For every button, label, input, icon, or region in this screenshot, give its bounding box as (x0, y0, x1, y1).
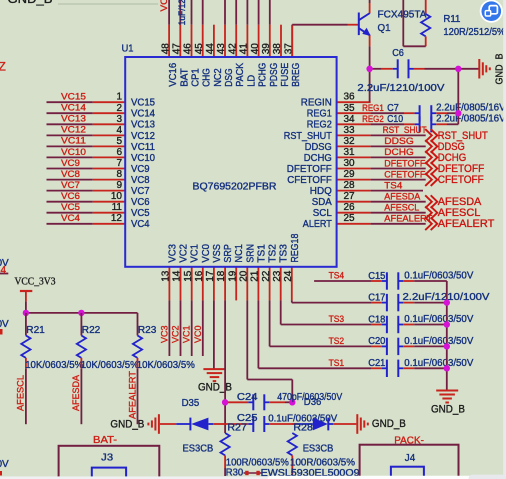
svg-text:VC3: VC3 (167, 244, 178, 263)
svg-text:VC3: VC3 (159, 326, 169, 344)
svg-text:DCHG: DCHG (304, 153, 332, 164)
svg-text:SRP: SRP (223, 244, 234, 263)
svg-text:VC12: VC12 (61, 125, 86, 135)
svg-text:VC4: VC4 (131, 219, 150, 230)
svg-text:22: 22 (261, 270, 272, 282)
svg-text:VCC_3V3: VCC_3V3 (15, 276, 56, 288)
svg-text:PCHG: PCHG (258, 63, 269, 87)
svg-text:26: 26 (344, 202, 356, 213)
svg-text:J3: J3 (101, 452, 113, 463)
svg-text:5: 5 (116, 136, 122, 147)
svg-text:VC9: VC9 (61, 158, 80, 168)
svg-text:VC2: VC2 (179, 244, 190, 263)
svg-text:100R/0603/5%: 100R/0603/5% (290, 457, 355, 468)
svg-text:VC16: VC16 (159, 0, 169, 12)
svg-text:47: 47 (172, 43, 183, 55)
svg-text:VC11: VC11 (61, 136, 86, 146)
svg-text:BQ7695202PFBR: BQ7695202PFBR (193, 182, 277, 193)
svg-text:VC5: VC5 (61, 202, 80, 212)
svg-text:SRN: SRN (245, 244, 256, 263)
svg-text:ALERT: ALERT (303, 219, 332, 230)
svg-text:VC7: VC7 (131, 186, 150, 197)
svg-text:6: 6 (116, 147, 122, 158)
svg-text:PACK-: PACK- (394, 435, 424, 446)
svg-text:C20: C20 (368, 336, 386, 347)
svg-text:7: 7 (116, 158, 122, 169)
svg-text:BAT-: BAT- (93, 435, 117, 446)
svg-text:35: 35 (344, 103, 356, 114)
svg-text:C10: C10 (387, 114, 403, 125)
svg-text:LD: LD (246, 75, 257, 87)
svg-text:AFEALERT: AFEALERT (127, 371, 137, 419)
svg-text:R11: R11 (443, 14, 460, 25)
svg-text:0V: 0V (0, 319, 9, 330)
svg-text:4: 4 (1, 265, 7, 276)
svg-text:VC13: VC13 (61, 114, 86, 124)
svg-text:21: 21 (250, 270, 261, 282)
svg-text:AFEALERT: AFEALERT (438, 218, 495, 230)
svg-text:VC8: VC8 (61, 169, 80, 179)
svg-text:C7: C7 (387, 103, 399, 114)
svg-text:BAT: BAT (179, 68, 190, 87)
svg-text:DDSG: DDSG (384, 136, 414, 146)
svg-text:VC6: VC6 (131, 197, 150, 208)
svg-text:R23: R23 (138, 325, 157, 336)
svg-text:SDA: SDA (312, 197, 332, 208)
svg-text:R27: R27 (227, 423, 247, 434)
svg-text:46: 46 (183, 43, 194, 55)
svg-text:NC2: NC2 (213, 68, 224, 87)
svg-text:REGIN: REGIN (301, 98, 332, 109)
svg-text:34: 34 (344, 114, 356, 125)
svg-text:VC6: VC6 (61, 191, 80, 201)
svg-text:3: 3 (116, 114, 122, 125)
svg-text:Z: Z (0, 60, 6, 74)
svg-text:GND_B: GND_B (8, 0, 53, 6)
svg-text:12: 12 (111, 213, 123, 224)
svg-text:VC12: VC12 (131, 131, 155, 142)
svg-text:36: 36 (344, 92, 356, 103)
svg-text:0.1uF/0603/50V: 0.1uF/0603/50V (404, 358, 473, 369)
svg-text:CP1: CP1 (191, 68, 202, 87)
svg-text:REG2: REG2 (307, 120, 332, 131)
svg-text:HDQ: HDQ (310, 186, 332, 197)
svg-text:43: 43 (216, 43, 227, 55)
svg-text:VC5: VC5 (131, 208, 150, 219)
svg-text:TS3: TS3 (329, 314, 345, 324)
svg-text:GND_B: GND_B (372, 418, 406, 430)
svg-text:10K/0603/5%: 10K/0603/5% (81, 360, 139, 371)
svg-text:28: 28 (344, 180, 356, 191)
svg-text:CFETOFF: CFETOFF (384, 169, 425, 179)
svg-text:GND_B: GND_B (198, 381, 232, 393)
svg-text:2: 2 (116, 103, 122, 114)
svg-text:BREG: BREG (291, 63, 302, 87)
svg-text:39: 39 (261, 43, 272, 55)
svg-text:TS2: TS2 (268, 244, 279, 263)
svg-text:ES3CB: ES3CB (303, 443, 334, 454)
svg-text:48: 48 (160, 43, 171, 55)
svg-text:C17: C17 (368, 292, 386, 303)
svg-text:Q1: Q1 (378, 23, 391, 34)
svg-text:11: 11 (112, 202, 123, 213)
svg-text:FUSE: FUSE (280, 63, 291, 87)
svg-text:R21: R21 (26, 325, 45, 336)
svg-text:SCL: SCL (313, 208, 332, 219)
svg-text:NC1: NC1 (234, 244, 245, 263)
svg-text:D35: D35 (182, 398, 200, 409)
svg-text:44: 44 (205, 43, 216, 55)
svg-text:AFESDA: AFESDA (71, 374, 81, 411)
svg-text:2.2uF/1210/100V: 2.2uF/1210/100V (357, 83, 444, 94)
svg-text:DFETOFF: DFETOFF (384, 158, 425, 168)
svg-text:23: 23 (272, 270, 283, 282)
svg-text:41: 41 (239, 43, 250, 55)
svg-text:C15: C15 (368, 271, 386, 282)
svg-text:16: 16 (194, 270, 205, 282)
svg-text:REG18: REG18 (290, 233, 301, 262)
svg-text:VC10: VC10 (131, 153, 155, 164)
svg-text:9: 9 (116, 180, 122, 191)
svg-text:VC7: VC7 (61, 180, 80, 190)
svg-text:REG2: REG2 (362, 114, 384, 124)
svg-text:15: 15 (183, 270, 194, 282)
svg-text:RST_SHUT: RST_SHUT (284, 131, 332, 142)
svg-text:TS4: TS4 (329, 271, 345, 281)
svg-text:D36: D36 (304, 397, 322, 408)
svg-text:13: 13 (161, 270, 172, 282)
svg-text:31: 31 (344, 147, 356, 158)
svg-text:C21: C21 (368, 358, 386, 369)
svg-text:VC11: VC11 (131, 142, 155, 153)
svg-text:38: 38 (272, 43, 283, 55)
svg-text:C6: C6 (392, 48, 404, 59)
svg-text:1uF/1210/100V: 1uF/1210/100V (177, 0, 188, 25)
svg-text:27: 27 (344, 191, 356, 202)
svg-text:C18: C18 (368, 314, 386, 325)
svg-text:2.2uF/0805/16V: 2.2uF/0805/16V (436, 114, 506, 125)
svg-text:U1: U1 (122, 44, 134, 55)
svg-text:REG1: REG1 (362, 103, 384, 113)
svg-text:PDSG: PDSG (269, 63, 280, 87)
svg-text:TS2: TS2 (329, 336, 345, 346)
svg-text:R22: R22 (82, 325, 101, 336)
svg-text:VC8: VC8 (131, 175, 150, 186)
svg-text:VC10: VC10 (61, 147, 86, 157)
svg-text:29: 29 (344, 169, 356, 180)
svg-text:10K/0603/5%: 10K/0603/5% (25, 360, 83, 371)
svg-text:VC0: VC0 (201, 244, 212, 263)
svg-text:FCX495TA: FCX495TA (378, 9, 427, 20)
svg-text:AFESCL: AFESCL (384, 203, 419, 213)
svg-text:VC4: VC4 (61, 213, 80, 223)
svg-text:TS1: TS1 (329, 358, 345, 368)
svg-text:0V: 0V (0, 459, 9, 470)
svg-text:ES3CB: ES3CB (183, 443, 214, 454)
svg-text:TS3: TS3 (279, 244, 290, 263)
svg-text:TS1: TS1 (256, 244, 267, 263)
svg-text:40: 40 (250, 43, 261, 55)
svg-text:20: 20 (239, 270, 250, 282)
svg-text:VC13: VC13 (131, 120, 155, 131)
svg-text:25: 25 (344, 213, 356, 224)
svg-text:24: 24 (283, 270, 294, 282)
svg-text:DCHG: DCHG (384, 147, 414, 157)
svg-text:VC15: VC15 (131, 98, 155, 109)
svg-text:CFETOFF: CFETOFF (287, 175, 332, 186)
svg-text:J4: J4 (405, 453, 416, 464)
svg-text:AFESCL: AFESCL (16, 375, 26, 411)
svg-text:CHG: CHG (202, 68, 213, 87)
svg-text:GND_B: GND_B (431, 404, 465, 416)
svg-text:33: 33 (344, 125, 356, 136)
svg-text:45: 45 (194, 43, 205, 55)
svg-text:CFETOFF: CFETOFF (438, 174, 484, 186)
svg-text:2.2uF/0805/16V: 2.2uF/0805/16V (436, 103, 506, 114)
svg-text:VC14: VC14 (131, 109, 155, 120)
svg-text:17: 17 (205, 270, 216, 282)
svg-text:VC1: VC1 (190, 244, 201, 263)
svg-text:0.1uF/0603/50V: 0.1uF/0603/50V (404, 314, 473, 325)
svg-text:1: 1 (116, 92, 122, 103)
svg-text:VC15: VC15 (61, 92, 86, 102)
svg-text:VC0: VC0 (193, 326, 203, 344)
svg-text:VSS: VSS (212, 244, 223, 263)
svg-text:0.1uF/0603/50V: 0.1uF/0603/50V (404, 271, 473, 282)
svg-text:32: 32 (344, 136, 356, 147)
svg-text:VC1: VC1 (182, 326, 192, 344)
svg-text:18: 18 (216, 270, 227, 282)
svg-text:DSG: DSG (224, 68, 235, 87)
svg-text:VC9: VC9 (131, 164, 150, 175)
svg-text:REG1: REG1 (307, 109, 332, 120)
svg-text:10: 10 (111, 191, 123, 202)
svg-text:4: 4 (116, 125, 122, 136)
svg-text:19: 19 (227, 270, 238, 282)
svg-text:R28: R28 (293, 423, 313, 434)
svg-text:DFETOFF: DFETOFF (287, 164, 332, 175)
svg-text:AFESDA: AFESDA (384, 192, 421, 202)
svg-text:30: 30 (344, 158, 356, 169)
svg-text:8: 8 (116, 169, 122, 180)
svg-text:42: 42 (227, 43, 238, 55)
svg-text:GND_B: GND_B (110, 418, 144, 430)
svg-text:C24: C24 (237, 392, 258, 403)
svg-text:VC2: VC2 (171, 326, 181, 344)
svg-text:VC14: VC14 (61, 103, 86, 113)
svg-text:0.1uF/0603/50V: 0.1uF/0603/50V (404, 336, 473, 347)
svg-text:14: 14 (172, 270, 183, 282)
svg-text:RST_SHUT: RST_SHUT (383, 125, 427, 135)
svg-text:DDSG: DDSG (305, 142, 332, 153)
svg-text:VC16: VC16 (168, 62, 179, 86)
svg-text:TS4: TS4 (384, 180, 402, 190)
svg-text:120R/2512/5%: 120R/2512/5% (443, 27, 505, 38)
svg-text:PACK: PACK (235, 63, 246, 87)
svg-text:10K/0603/5%: 10K/0603/5% (137, 360, 195, 371)
